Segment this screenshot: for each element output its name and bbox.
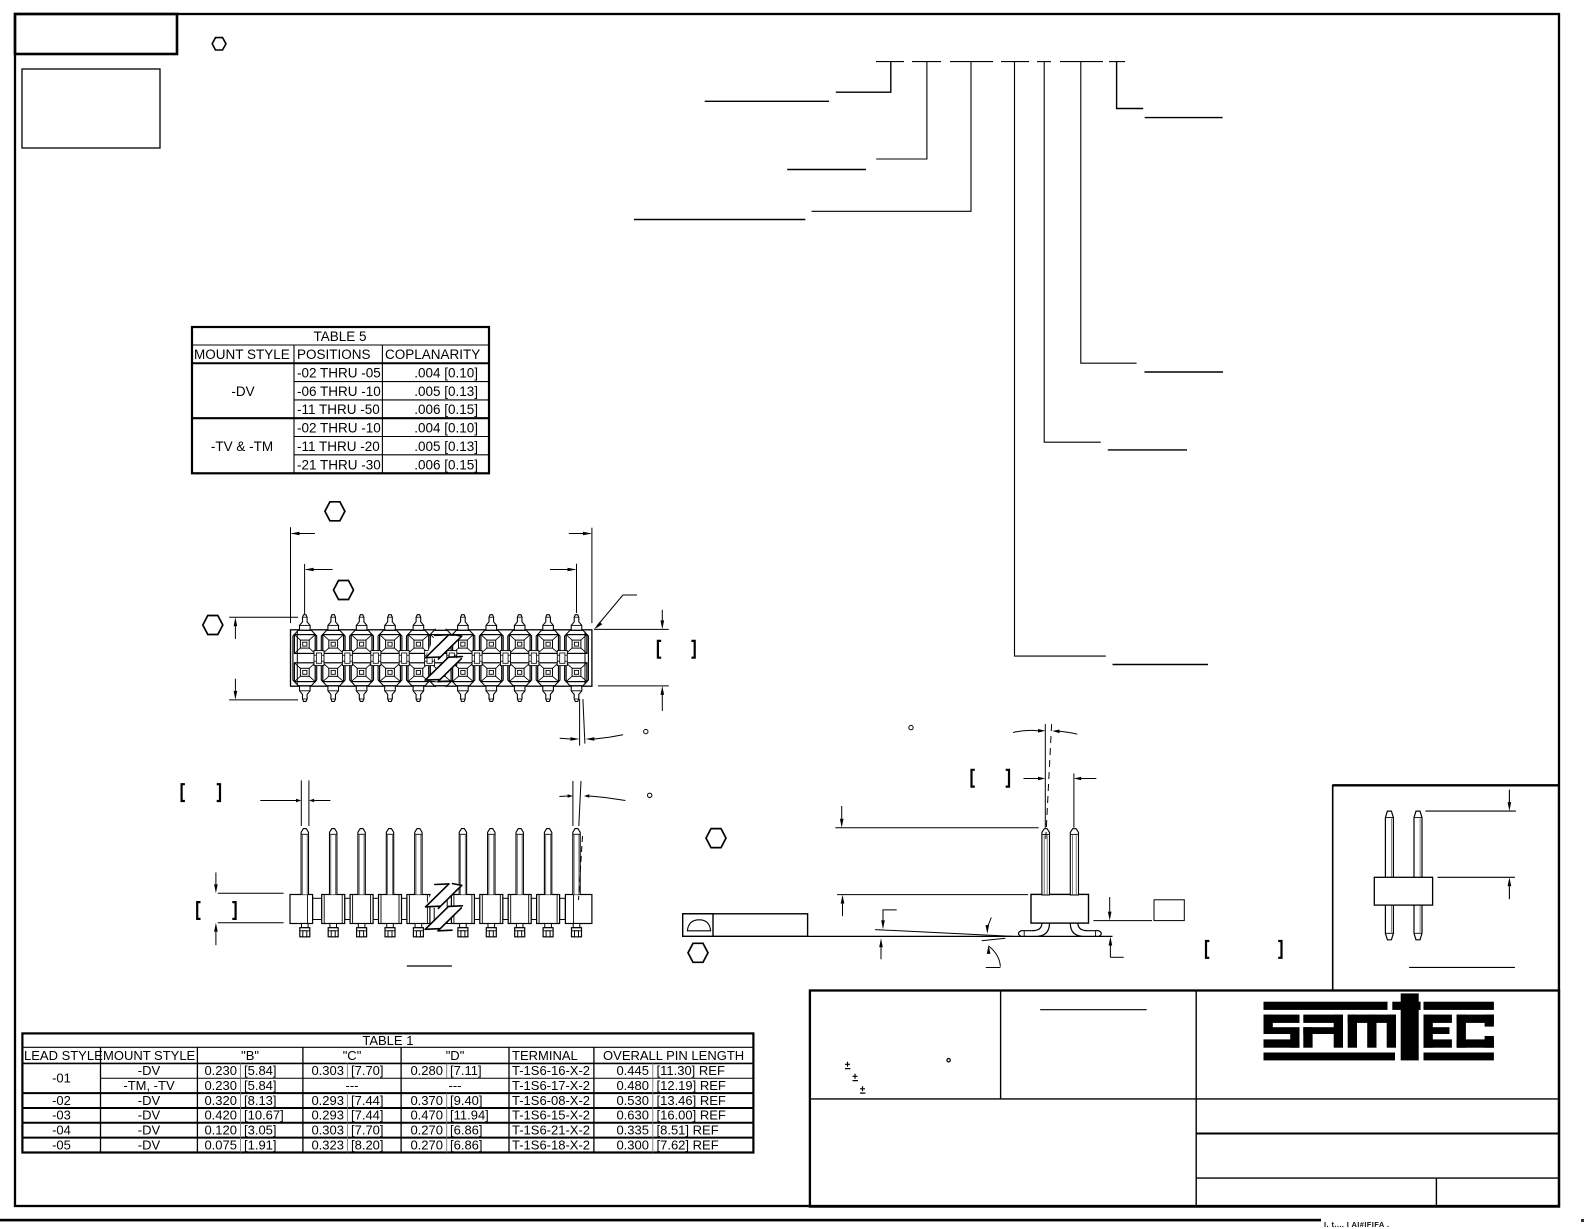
svg-text:-11 THRU -20: -11 THRU -20 (297, 439, 380, 454)
svg-text:[8.51] REF: [8.51] REF (657, 1123, 719, 1138)
svg-text:0.230: 0.230 (204, 1063, 237, 1078)
svg-text:[5.84]: [5.84] (244, 1078, 277, 1093)
svg-text:T-1S6-21-X-2: T-1S6-21-X-2 (512, 1123, 590, 1138)
svg-text:0.075: 0.075 (204, 1137, 237, 1152)
svg-text:[3.05]: [3.05] (244, 1123, 277, 1138)
svg-text:TABLE 5: TABLE 5 (313, 329, 366, 344)
svg-text:0.120: 0.120 (204, 1123, 237, 1138)
svg-text:TERMINAL: TERMINAL (512, 1048, 578, 1063)
svg-text:[7.70]: [7.70] (351, 1123, 384, 1138)
svg-text:[1.91]: [1.91] (244, 1137, 277, 1152)
svg-text:LEAD STYLE: LEAD STYLE (24, 1048, 103, 1063)
svg-text:T-1S6-18-X-2: T-1S6-18-X-2 (512, 1137, 590, 1152)
svg-text:.006 [0.15]: .006 [0.15] (414, 402, 478, 417)
svg-text:-01: -01 (52, 1070, 71, 1085)
svg-text:.005 [0.13]: .005 [0.13] (414, 439, 478, 454)
svg-text:-02: -02 (52, 1093, 71, 1108)
svg-text:-03: -03 (52, 1108, 71, 1123)
svg-text:-02 THRU -05: -02 THRU -05 (297, 366, 381, 381)
svg-text:-06 THRU -10: -06 THRU -10 (297, 384, 381, 399)
svg-text:0.470: 0.470 (410, 1108, 443, 1123)
svg-text:[7.44]: [7.44] (351, 1108, 384, 1123)
svg-text:[11.94]: [11.94] (450, 1108, 489, 1123)
svg-text:-TV & -TM: -TV & -TM (211, 439, 273, 454)
svg-text:[7.62] REF: [7.62] REF (657, 1137, 719, 1152)
svg-text:-11 THRU -50: -11 THRU -50 (297, 402, 380, 417)
svg-text:COPLANARITY: COPLANARITY (385, 347, 480, 362)
svg-text:[9.40]: [9.40] (450, 1093, 483, 1108)
svg-text:0.280: 0.280 (410, 1063, 443, 1078)
svg-text:[7.11]: [7.11] (450, 1063, 482, 1078)
svg-text:-05: -05 (52, 1137, 71, 1152)
svg-text:-TM, -TV: -TM, -TV (123, 1078, 175, 1093)
svg-text:0.335: 0.335 (616, 1123, 649, 1138)
svg-text:T-1S6-17-X-2: T-1S6-17-X-2 (512, 1078, 590, 1093)
svg-text:0.270: 0.270 (410, 1123, 443, 1138)
svg-text:OVERALL PIN LENGTH: OVERALL PIN LENGTH (603, 1048, 744, 1063)
svg-text:-DV: -DV (138, 1063, 161, 1078)
svg-text:-DV: -DV (138, 1093, 161, 1108)
svg-text:T-1S6-08-X-2: T-1S6-08-X-2 (512, 1093, 590, 1108)
svg-text:[12.19] REF: [12.19] REF (657, 1078, 726, 1093)
svg-text:-02 THRU -10: -02 THRU -10 (297, 421, 381, 436)
svg-text:"D": "D" (446, 1048, 465, 1063)
svg-text:0.300: 0.300 (616, 1137, 649, 1152)
svg-text:0.320: 0.320 (204, 1093, 237, 1108)
svg-text:[6.86]: [6.86] (450, 1123, 483, 1138)
svg-text:.006 [0.15]: .006 [0.15] (414, 457, 478, 472)
svg-text:T-1S6-15-X-2: T-1S6-15-X-2 (512, 1108, 590, 1123)
svg-text:0.230: 0.230 (204, 1078, 237, 1093)
svg-text:0.370: 0.370 (410, 1093, 443, 1108)
svg-text:MOUNT STYLE: MOUNT STYLE (194, 347, 290, 362)
svg-text:0.270: 0.270 (410, 1137, 443, 1152)
svg-text:[8.20]: [8.20] (351, 1137, 384, 1152)
svg-text:POSITIONS: POSITIONS (297, 347, 371, 362)
svg-text:0.630: 0.630 (616, 1108, 649, 1123)
svg-text:[11.30] REF: [11.30] REF (657, 1063, 725, 1078)
svg-text:0.303: 0.303 (311, 1123, 344, 1138)
svg-text:-21 THRU -30: -21 THRU -30 (297, 457, 381, 472)
svg-text:[6.86]: [6.86] (450, 1137, 483, 1152)
svg-text:.004 [0.10]: .004 [0.10] (414, 366, 478, 381)
svg-text:---: --- (346, 1078, 359, 1093)
svg-text:-DV: -DV (231, 384, 254, 399)
svg-text:0.445: 0.445 (616, 1063, 649, 1078)
svg-text:---: --- (449, 1078, 462, 1093)
svg-text:0.530: 0.530 (616, 1093, 649, 1108)
svg-text:0.303: 0.303 (311, 1063, 344, 1078)
svg-text:-DV: -DV (138, 1137, 161, 1152)
svg-text:0.323: 0.323 (311, 1137, 344, 1152)
svg-text:-04: -04 (52, 1123, 71, 1138)
svg-text:[13.46] REF: [13.46] REF (657, 1093, 726, 1108)
svg-text:0.420: 0.420 (204, 1108, 237, 1123)
svg-text:[5.84]: [5.84] (244, 1063, 277, 1078)
svg-text:0.480: 0.480 (616, 1078, 649, 1093)
svg-text:[16.00] REF: [16.00] REF (657, 1108, 726, 1123)
svg-text:-DV: -DV (138, 1123, 161, 1138)
svg-text:.004 [0.10]: .004 [0.10] (414, 421, 478, 436)
svg-text:[8.13]: [8.13] (244, 1093, 277, 1108)
svg-text:-DV: -DV (138, 1108, 161, 1123)
svg-text:"C": "C" (343, 1048, 362, 1063)
svg-text:[7.70]: [7.70] (351, 1063, 384, 1078)
svg-text:.005 [0.13]: .005 [0.13] (414, 384, 478, 399)
svg-text:[7.44]: [7.44] (351, 1093, 384, 1108)
svg-text:0.293: 0.293 (311, 1108, 344, 1123)
svg-text:"B": "B" (241, 1048, 259, 1063)
svg-text:TABLE 1: TABLE 1 (362, 1033, 413, 1048)
svg-text:MOUNT STYLE: MOUNT STYLE (103, 1048, 196, 1063)
svg-text:T-1S6-16-X-2: T-1S6-16-X-2 (512, 1063, 590, 1078)
svg-text:[10.67]: [10.67] (244, 1108, 284, 1123)
svg-text:0.293: 0.293 (311, 1093, 344, 1108)
